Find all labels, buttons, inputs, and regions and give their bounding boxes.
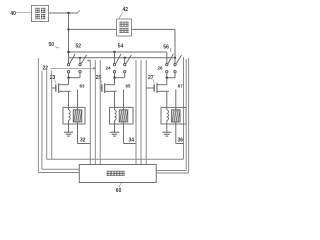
svg-text:56: 56	[163, 45, 169, 51]
svg-text:32: 32	[80, 138, 86, 144]
svg-text:22: 22	[43, 66, 49, 72]
svg-text:36: 36	[178, 138, 184, 144]
svg-text:60: 60	[116, 188, 122, 194]
svg-text:40: 40	[10, 11, 16, 17]
svg-text:63: 63	[80, 83, 86, 88]
svg-text:67: 67	[178, 83, 184, 88]
svg-text:26: 26	[158, 65, 164, 70]
svg-text:52: 52	[76, 44, 82, 50]
svg-text:34: 34	[129, 138, 135, 144]
svg-text:50: 50	[49, 42, 55, 48]
svg-text:42: 42	[123, 7, 129, 13]
svg-text:65: 65	[126, 83, 132, 88]
svg-text:24: 24	[106, 65, 112, 70]
svg-text:54: 54	[118, 44, 124, 50]
